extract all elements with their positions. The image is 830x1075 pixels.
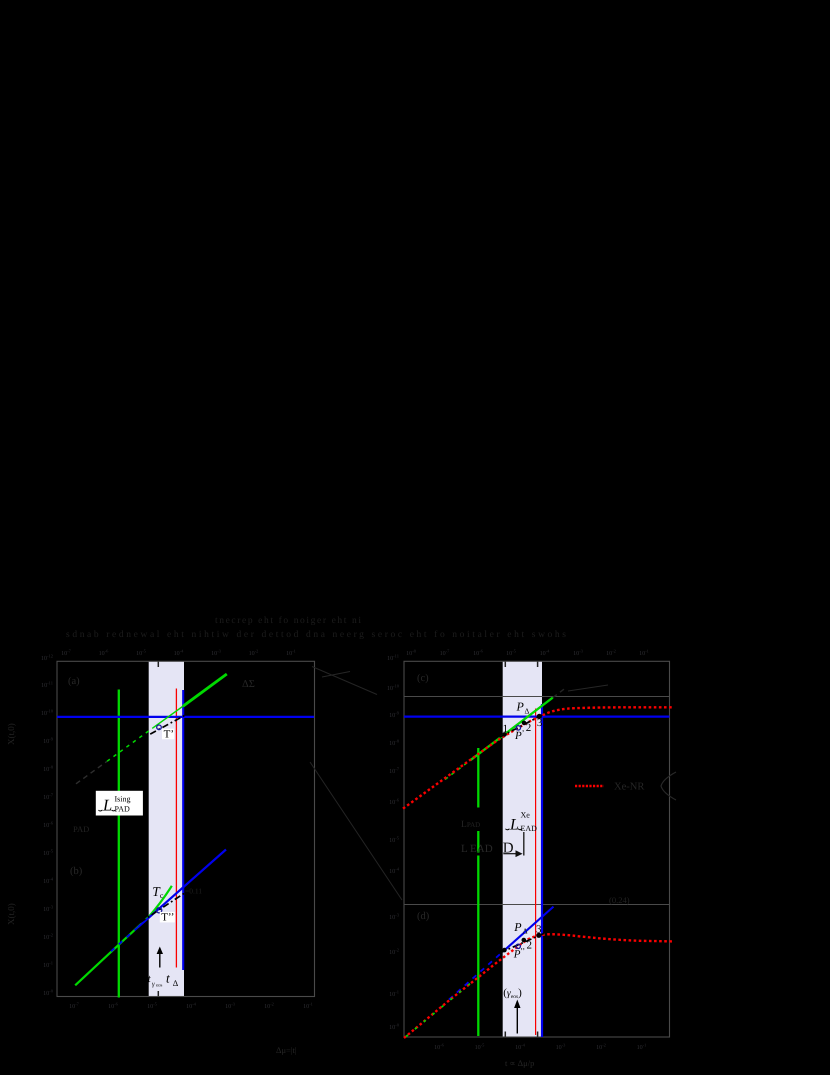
svg-text:2: 2 xyxy=(526,722,532,734)
svg-text:ΔΣ: ΔΣ xyxy=(242,679,255,690)
svg-text:sdnab rednewal eht nihtiw der: sdnab rednewal eht nihtiw der dettod dna… xyxy=(66,630,566,640)
svg-text:L: L xyxy=(509,816,519,833)
svg-text:=0.11: =0.11 xyxy=(185,887,202,896)
svg-text:EAD: EAD xyxy=(521,824,538,833)
svg-text:PAD: PAD xyxy=(73,824,89,834)
svg-text:(c): (c) xyxy=(417,673,429,684)
svg-text:3: 3 xyxy=(536,924,542,936)
svg-text:’: ’ xyxy=(522,729,525,738)
svg-text:’’: ’’ xyxy=(520,947,525,956)
svg-text:P: P xyxy=(514,730,522,742)
svg-text:(0.24): (0.24) xyxy=(609,895,630,905)
svg-text:eos: eos xyxy=(156,983,163,988)
svg-text:(a): (a) xyxy=(68,676,80,687)
svg-text:1: 1 xyxy=(503,723,509,735)
svg-text:Xe: Xe xyxy=(521,811,531,820)
svg-text:Ising: Ising xyxy=(115,795,131,804)
svg-text:Δ: Δ xyxy=(523,926,528,935)
svg-text:γ: γ xyxy=(152,980,155,988)
svg-text:LPAD: LPAD xyxy=(461,820,480,830)
svg-text:X(t,0): X(t,0) xyxy=(6,723,16,745)
svg-text:T’’: T’’ xyxy=(161,912,174,924)
svg-text:Δ: Δ xyxy=(525,707,530,716)
svg-text:t ∝ Δμ/p: t ∝ Δμ/p xyxy=(505,1058,534,1068)
svg-text:Xe-NR: Xe-NR xyxy=(614,782,644,793)
svg-text:Δμ=|t|: Δμ=|t| xyxy=(276,1045,297,1055)
svg-text:X(t,0): X(t,0) xyxy=(6,903,16,925)
svg-text:2: 2 xyxy=(527,939,533,951)
svg-text:P: P xyxy=(516,700,525,714)
svg-text:L: L xyxy=(102,796,112,815)
svg-text:L EAD: L EAD xyxy=(461,843,493,855)
svg-text:Δ: Δ xyxy=(173,978,179,988)
svg-text:(b): (b) xyxy=(70,866,83,877)
svg-text:t: t xyxy=(166,970,170,985)
svg-text:PAD: PAD xyxy=(115,805,130,814)
svg-text:(d): (d) xyxy=(417,911,430,922)
svg-text:P: P xyxy=(513,920,522,934)
svg-text:T’: T’ xyxy=(164,729,174,741)
svg-text:3: 3 xyxy=(537,717,543,729)
